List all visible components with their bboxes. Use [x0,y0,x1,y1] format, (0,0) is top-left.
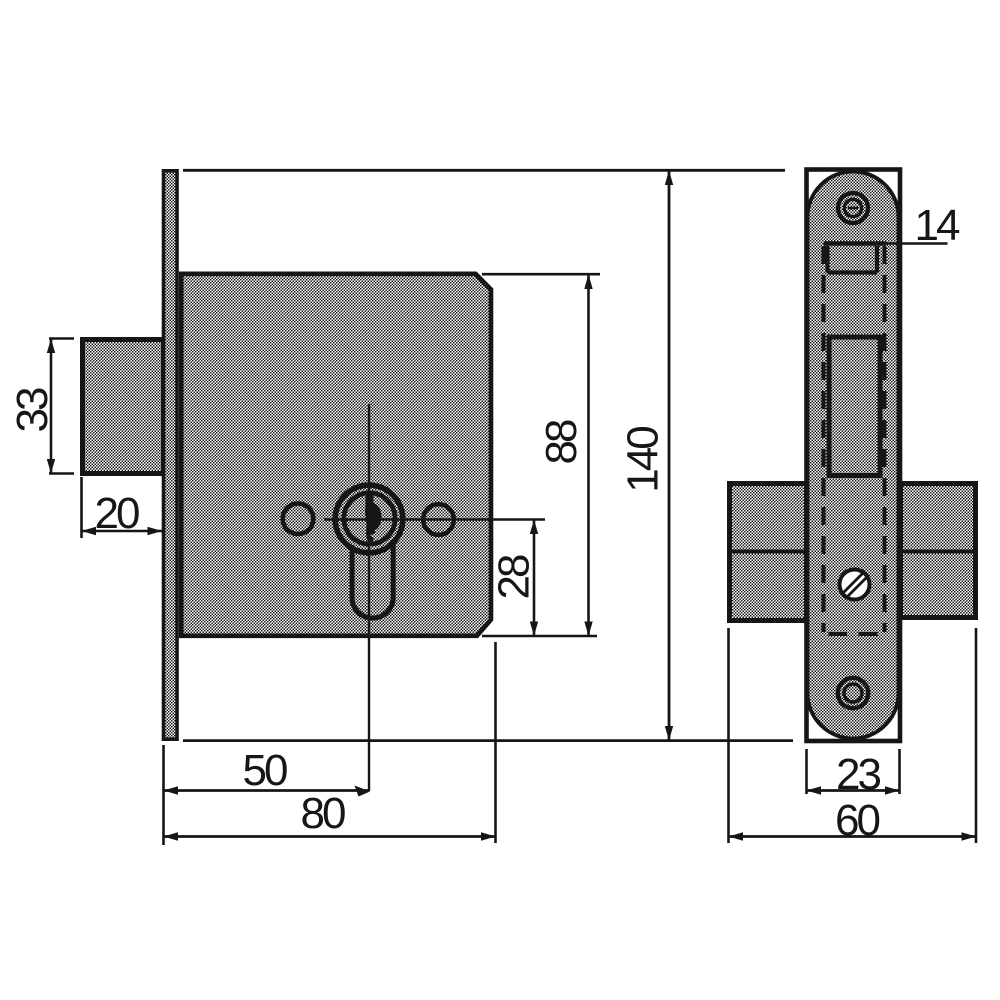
hidden mortise box: right dashed line [883,246,887,632]
dim 140: dimension line [668,171,671,740]
top screw hole [838,193,868,223]
right bolt block (side view) [901,484,978,618]
dim 23: right extension line [898,749,901,794]
strike plate outer rectangle [807,170,901,742]
dim 60: left extension line [727,628,730,843]
dim 28: dimension line [533,521,536,636]
svg-text:20: 20 [95,489,139,538]
screw head with slot [840,570,870,600]
dim 60: dimension line [729,835,977,838]
bottom screw hole [838,678,868,708]
svg-text:88: 88 [537,420,586,464]
euro cylinder outer circle [335,485,403,553]
dim 23: left extension line [805,749,808,794]
svg-text:33: 33 [8,388,57,432]
dim 20: dimension line [82,530,163,533]
faceplate strip (left view) [164,171,178,739]
euro cylinder inner circle [344,493,395,544]
dim 80: right extension line [494,642,497,843]
dim 33: dimension line [50,339,53,473]
rounded forend plate (capsule, hatched) [808,172,899,739]
hidden mortise box: left dashed line [822,246,826,632]
bottom alignment extension line [183,739,793,742]
dim 88/28: bottom extension line [482,635,597,638]
dim 80: left extension line [162,745,165,845]
svg-text:23: 23 [836,750,880,799]
latch hole rectangle [829,337,880,476]
dim 80: dimension line [164,835,496,838]
dim 50: dimension line [164,789,369,792]
vertical centerline through cylinder [368,404,370,791]
dim 20: extension line [80,477,83,538]
dim 88: dimension line [587,275,590,635]
lock case body (left view) [181,274,491,636]
top alignment extension line [183,169,785,172]
dim 14: leader line [824,241,887,245]
upper recess box (solid sides) [828,246,878,273]
dim 88: top extension line [482,273,600,276]
dim 60: right extension line [975,628,978,843]
left bolt block (side view) [727,484,807,621]
bolt (latch block, left view) [83,340,164,474]
svg-text:60: 60 [835,796,879,845]
keyway silhouette [365,494,382,545]
hidden mortise box: bottom dashed line [829,632,848,636]
left small hole [283,503,314,534]
svg-text:80: 80 [301,789,345,838]
dim 23: dimension line [807,789,900,792]
horizontal centerline through cylinder [324,518,545,521]
svg-text:140: 140 [619,427,668,493]
dim 33: extension ticks [49,337,74,340]
svg-text:14: 14 [915,201,960,250]
euro cylinder stem outline [352,542,393,618]
right small hole [423,504,454,535]
svg-text:28: 28 [490,555,539,599]
svg-text:50: 50 [243,746,287,795]
